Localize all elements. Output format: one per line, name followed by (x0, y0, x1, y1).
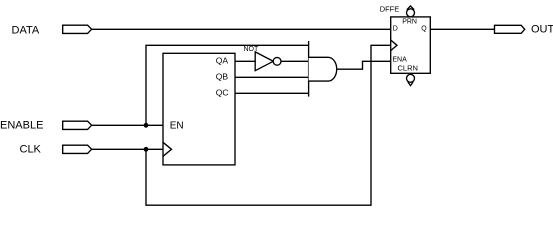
svg-text:CLRN: CLRN (398, 64, 418, 73)
svg-text:EN: EN (170, 121, 184, 132)
svg-text:D: D (393, 25, 398, 32)
svg-text:DATA: DATA (12, 24, 40, 36)
svg-text:QB: QB (216, 72, 229, 82)
svg-text:Q: Q (421, 25, 427, 32)
svg-text:CLK: CLK (20, 143, 42, 155)
svg-text:NOT: NOT (244, 46, 260, 53)
svg-text:OUT: OUT (531, 23, 553, 35)
svg-text:QC: QC (216, 88, 229, 98)
svg-text:DFFE: DFFE (380, 4, 400, 13)
svg-text:PRN: PRN (402, 19, 417, 26)
svg-text:ENA: ENA (392, 57, 407, 64)
svg-text:ENABLE: ENABLE (0, 120, 43, 132)
svg-text:QA: QA (216, 56, 229, 66)
